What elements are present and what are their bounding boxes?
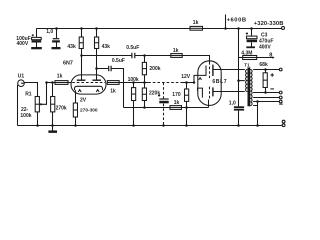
node 100k bottom xyxy=(132,124,135,127)
tube 6BL7 anode bar 2 xyxy=(212,87,214,96)
node primary center tap xyxy=(237,79,240,82)
tube 6N7 anode bar section 1 xyxy=(77,79,86,81)
wire B+ vertical xyxy=(238,29,240,107)
node wiper line xyxy=(45,81,48,84)
wire primary center tap stub xyxy=(239,80,245,82)
wire anode2 to primary bottom xyxy=(213,91,245,93)
capacitor bypass optional (dashed) xyxy=(163,83,165,99)
resistor 100k xyxy=(133,83,135,88)
wire 1k to 6N7 grid xyxy=(68,82,71,84)
node R1 bottom xyxy=(36,124,39,127)
ground xyxy=(52,126,54,131)
terminal +320-330V output xyxy=(282,27,285,30)
node 270k bottom / ground xyxy=(51,124,54,127)
svg-text:T1: T1 xyxy=(244,63,250,68)
svg-text:270-300: 270-300 xyxy=(80,108,98,114)
svg-text:6BL7: 6BL7 xyxy=(212,79,227,85)
terminal speaker 4 xyxy=(279,100,282,103)
potentiometer R1 22-100k xyxy=(35,97,39,112)
capacitor 1,0 xyxy=(56,29,58,39)
tube 6N7 grid dashed xyxy=(72,82,105,84)
svg-text:U1: U1 xyxy=(18,73,25,79)
node 1,0 bottom xyxy=(237,124,240,127)
node 170 at feedback line xyxy=(185,106,188,109)
wire plate1 to coupling cap xyxy=(82,55,132,57)
svg-text:+600B: +600B xyxy=(227,18,247,24)
svg-text:12V: 12V xyxy=(181,74,191,80)
resistor 1k grid stopper 1 xyxy=(55,81,68,85)
label minus xyxy=(270,88,274,90)
tube 6N7 cathode xyxy=(75,86,103,90)
node 170 top xyxy=(185,81,188,84)
tube 6BL7 envelope xyxy=(198,61,221,106)
resistor 1k feedback xyxy=(170,106,182,110)
svg-text:4,3M: 4,3M xyxy=(241,51,252,57)
tube 6BL7 cathode 1 xyxy=(194,66,206,83)
node 100k top xyxy=(132,81,135,84)
svg-text:100k: 100k xyxy=(128,77,139,83)
resistor 270-300 cathode xyxy=(73,103,77,117)
node plate1 tap xyxy=(80,54,83,57)
svg-text:+320-330B: +320-330B xyxy=(254,21,284,27)
svg-text:6N7: 6N7 xyxy=(63,61,73,67)
node plate2 tap xyxy=(95,67,98,70)
tube 6N7 envelope xyxy=(71,75,106,94)
svg-text:1,0: 1,0 xyxy=(46,29,53,35)
capacitor C3 470uF 400V xyxy=(251,29,253,37)
svg-text:0.5uF: 0.5uF xyxy=(112,58,125,64)
node 220k top xyxy=(143,81,146,84)
resistor 270k grid leak xyxy=(52,83,54,97)
resistor 43k (left) xyxy=(81,29,83,38)
svg-text:400V: 400V xyxy=(259,44,271,50)
wire coupling 2 to feedback line xyxy=(111,69,123,108)
wire secondary tap 4 xyxy=(253,101,279,103)
node B+ rail xyxy=(237,27,240,30)
wire grid2 line xyxy=(119,82,148,84)
resistor 68k xyxy=(265,70,267,73)
tube 6BL7 cathode 2 xyxy=(198,88,203,98)
label minus 2 xyxy=(279,103,283,105)
terminal speaker 1 xyxy=(279,68,282,71)
resistor 220k xyxy=(144,83,146,89)
node secondary ground xyxy=(256,124,259,127)
tube 6BL7 heater tick xyxy=(199,78,202,80)
wire feedback line left xyxy=(124,107,171,109)
svg-text:1,0: 1,0 xyxy=(229,100,236,106)
tube 6BL7 anode bar 1 xyxy=(212,65,214,76)
wire top rail left xyxy=(36,28,190,30)
node C3 rail xyxy=(250,27,253,30)
node bypass cap bottom xyxy=(162,124,165,127)
node 68k bottom xyxy=(264,91,267,94)
svg-text:220k: 220k xyxy=(149,90,160,96)
svg-text:170: 170 xyxy=(172,92,181,98)
node top of 1,0 cap xyxy=(55,27,58,30)
transformer T1 primary winding xyxy=(246,70,248,92)
svg-text:100k: 100k xyxy=(20,113,31,119)
node secondary bottom xyxy=(256,100,259,103)
resistor 1k grid stopper 6BL7 xyxy=(171,54,182,58)
node A xyxy=(143,54,146,57)
capacitor 100uF 400V electrolytic xyxy=(36,29,38,38)
terminal ground double 1 xyxy=(282,120,285,123)
transformer T1 secondary winding xyxy=(250,70,252,106)
resistor 170 cathode xyxy=(186,83,188,90)
node +600V stub xyxy=(224,27,227,30)
svg-text:400V: 400V xyxy=(17,41,29,47)
wire U1 ground xyxy=(17,85,19,126)
wire 6N7 cathode lead xyxy=(75,90,77,103)
svg-text:200k: 200k xyxy=(149,66,160,72)
node top of 43k R2 xyxy=(95,27,98,30)
wire top rail right xyxy=(203,28,282,30)
resistor 1k (top rail) xyxy=(190,26,203,30)
resistor 1k grid stopper 2 xyxy=(107,81,119,85)
resistor 43k (right) xyxy=(96,29,98,38)
svg-text:1k: 1k xyxy=(57,73,63,79)
node 68k top xyxy=(264,68,267,71)
svg-text:0.5uF: 0.5uF xyxy=(126,45,139,51)
svg-text:1k: 1k xyxy=(193,20,199,26)
node cathode resistor bottom xyxy=(74,124,77,127)
label plus xyxy=(270,73,274,77)
wire coupling to node A xyxy=(135,55,171,57)
svg-text:R1: R1 xyxy=(25,91,32,97)
wire secondary tap 3 xyxy=(253,97,279,99)
node 220k bottom xyxy=(143,106,146,109)
terminal ground double 2 xyxy=(282,124,285,127)
node top of 43k R1 xyxy=(80,27,83,30)
wire dashed link xyxy=(148,82,181,84)
svg-text:2V: 2V xyxy=(80,98,87,104)
wire secondary bottom to rail xyxy=(253,102,257,126)
tube 6BL7 grid dashed bottom xyxy=(209,87,211,99)
resistor 200k xyxy=(144,56,146,63)
wire 1k to 6BL7 grid xyxy=(182,56,209,63)
connector U1 input xyxy=(18,80,25,87)
tube 6N7 anode bar section 2 xyxy=(92,79,101,81)
wire anode1 to primary top xyxy=(213,69,245,71)
tube 6BL7 grid dashed top xyxy=(209,62,211,78)
svg-text:8: 8 xyxy=(269,53,272,59)
svg-text:43k: 43k xyxy=(102,44,111,50)
capacitor 0.5uF coupling 1 xyxy=(132,53,135,59)
wire secondary tap 2 xyxy=(253,92,279,94)
tube 6N7 heater ticks xyxy=(78,90,99,92)
wire 6BL7 bottom lead xyxy=(208,100,210,108)
svg-text:1k: 1k xyxy=(174,100,180,106)
wire +600V stub xyxy=(225,15,227,29)
svg-text:270k: 270k xyxy=(56,106,67,112)
capacitor 1,0 decoupling xyxy=(234,106,244,108)
wire secondary tap 1 xyxy=(253,69,279,71)
wire grid line left xyxy=(47,82,56,84)
svg-text:43k: 43k xyxy=(67,44,76,50)
capacitor 0.5uF coupling 2 xyxy=(109,66,111,72)
wiper arrow R1 xyxy=(41,83,47,105)
wire feedback line right xyxy=(182,107,209,109)
svg-text:1k: 1k xyxy=(110,89,116,95)
wire cathode node line xyxy=(182,82,195,84)
wire plate2 to coupling cap 2 xyxy=(97,68,109,70)
svg-text:68k: 68k xyxy=(259,62,268,68)
svg-text:C3: C3 xyxy=(261,32,268,38)
svg-text:1k: 1k xyxy=(173,48,179,54)
transformer T1 core xyxy=(248,67,251,106)
terminal speaker 3 xyxy=(279,96,282,99)
wire bottom rail xyxy=(18,125,283,127)
node 170 bottom xyxy=(185,124,188,127)
wire U1 to R1 xyxy=(24,83,37,97)
resistor 4,3M feedback xyxy=(239,57,243,59)
terminal speaker 2 xyxy=(279,91,282,94)
node cathode1 xyxy=(193,81,196,84)
node 270k top xyxy=(51,81,54,84)
